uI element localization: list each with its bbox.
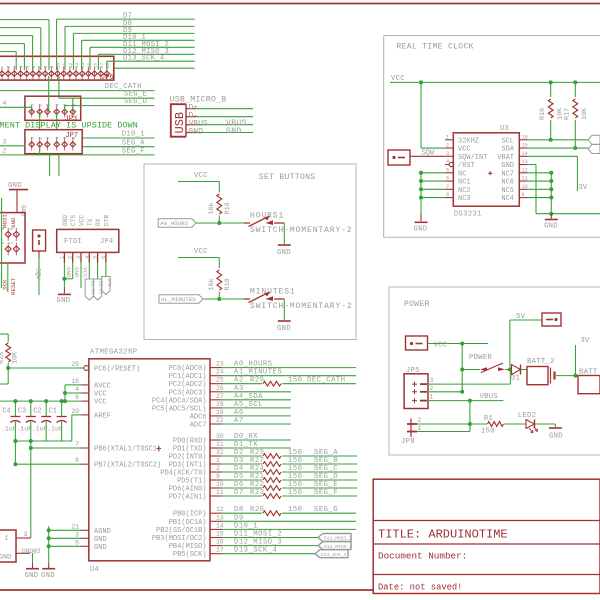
diode D1 <box>508 365 527 383</box>
svg-text:2: 2 <box>446 143 449 149</box>
U4 pin 30 PD0(RXD) net D0_RX <box>173 433 291 446</box>
svg-text:4: 4 <box>75 386 79 393</box>
U3 pin 12 NC7 <box>501 167 527 178</box>
svg-text:JP6: JP6 <box>101 74 114 82</box>
svg-text:2: 2 <box>3 147 7 154</box>
svg-text:32KHZ: 32KHZ <box>458 137 479 145</box>
svg-text:11: 11 <box>216 489 224 496</box>
svg-text:150: 150 <box>288 377 302 385</box>
svg-text:19: 19 <box>216 409 224 416</box>
supply VCC rail <box>390 75 600 84</box>
svg-text:GND: GND <box>501 162 514 170</box>
svg-text:10k: 10k <box>208 278 216 290</box>
svg-text:3: 3 <box>0 242 6 245</box>
wire net D12_MISO_3 <box>98 48 194 70</box>
svg-text:PB0(ICP): PB0(ICP) <box>173 511 207 519</box>
svg-text:ADC6: ADC6 <box>190 413 207 421</box>
resistor R19 10k <box>208 194 232 223</box>
capacitor C4 .1uF <box>1 399 21 441</box>
LED LED2 <box>518 412 556 433</box>
net DEC_CATH <box>0 83 154 91</box>
frame SET BUTTONS <box>144 164 356 340</box>
svg-text:150: 150 <box>288 449 302 457</box>
wire net D10_1 <box>82 34 195 70</box>
resistor R17 10K <box>564 82 590 148</box>
svg-text:150: 150 <box>481 428 495 436</box>
svg-text:R21: R21 <box>250 473 264 481</box>
svg-text:TITLE: ARDUINOTIME: TITLE: ARDUINOTIME <box>378 528 508 542</box>
U3 pin 15 SDA <box>501 143 527 154</box>
svg-text:SEG_F: SEG_F <box>122 148 145 156</box>
USB pin GND <box>186 127 253 137</box>
battery BATT <box>578 369 600 394</box>
flag DTR <box>102 263 111 295</box>
frame REAL TIME CLOCK <box>384 36 600 238</box>
U3 pin 14 VBAT <box>497 151 528 162</box>
svg-text:NC: NC <box>458 170 466 178</box>
svg-text:GND@2: GND@2 <box>22 548 41 555</box>
svg-text:SCL: SCL <box>501 137 514 145</box>
wire net D8 <box>65 20 195 70</box>
svg-text:13: 13 <box>74 63 80 69</box>
U3 pin 7 NC2 <box>445 184 471 195</box>
op-amp U4 ATMEGA328P <box>89 349 210 575</box>
svg-text:3: 3 <box>430 377 434 384</box>
U3 pin 13 GND <box>501 159 527 170</box>
wire VCC power <box>428 342 489 394</box>
svg-text:D13_SCK_4: D13_SCK_4 <box>123 55 165 63</box>
svg-text:TX: TX <box>87 218 94 226</box>
svg-text:D13_SCK_4: D13_SCK_4 <box>321 552 347 558</box>
svg-text:PB2(SS/OC1B): PB2(SS/OC1B) <box>156 527 206 535</box>
flag D12_MISO_3 <box>318 542 352 550</box>
svg-text:PB5(SCK): PB5(SCK) <box>173 551 207 559</box>
flag D13_SCK_4 <box>315 550 348 558</box>
svg-text:A0_HOURS: A0_HOURS <box>160 220 188 227</box>
wire JP5 pin2 <box>428 391 462 393</box>
U4 pin 10 PD6(AIN0) net D6 <box>169 481 357 494</box>
wire U3 NC pins to ground <box>419 171 445 221</box>
capacitor C1 .1uF <box>47 399 67 441</box>
svg-text:150: 150 <box>288 465 302 473</box>
svg-text:4: 4 <box>55 137 61 140</box>
svg-text:4: 4 <box>84 256 90 259</box>
net 3V power <box>576 337 590 376</box>
svg-text:2: 2 <box>38 137 44 140</box>
svg-text:3: 3 <box>75 531 79 538</box>
wire FTDI GND <box>57 263 81 306</box>
svg-text:JP8: JP8 <box>401 438 415 446</box>
svg-text:150: 150 <box>288 457 302 465</box>
svg-text:Date: not saved!: Date: not saved! <box>378 583 462 593</box>
svg-text:1: 1 <box>30 137 36 140</box>
svg-text:GND: GND <box>549 433 563 441</box>
svg-text:DEC_CATH: DEC_CATH <box>307 377 346 385</box>
net SEG_A <box>82 139 154 147</box>
svg-text:REAL TIME CLOCK: REAL TIME CLOCK <box>397 43 474 52</box>
svg-text:GND: GND <box>414 226 428 234</box>
svg-text:2: 2 <box>6 66 12 69</box>
solder jumper SQW 2 <box>33 230 46 258</box>
svg-text:POWER: POWER <box>469 354 492 362</box>
U4 pin 16 PB4(MISO) net D12_MISO_3 <box>169 539 318 552</box>
U3 pin 4 /RST <box>445 159 475 170</box>
svg-text:JP7: JP7 <box>66 132 79 140</box>
svg-text:PC2(ADC2): PC2(ADC2) <box>169 381 207 389</box>
svg-text:VBUS: VBUS <box>480 393 498 401</box>
svg-text:GND: GND <box>277 325 291 333</box>
U3 pin 16 SCL <box>501 134 527 145</box>
svg-text:9: 9 <box>522 192 525 198</box>
U4 pin 23 PC0(ADC0) net A0_HOURS <box>169 361 356 374</box>
wire net D9 <box>73 27 194 70</box>
svg-text:C4: C4 <box>2 408 10 416</box>
svg-text:3: 3 <box>76 256 82 259</box>
connector JP3 <box>25 96 81 123</box>
capacitor C3 .1uF <box>16 399 36 441</box>
solder jumper SQW <box>388 150 445 166</box>
svg-text:PB7(XTAL2/TOSC2): PB7(XTAL2/TOSC2) <box>94 462 161 470</box>
svg-text:7: 7 <box>446 184 449 190</box>
svg-text:PD0(RXD): PD0(RXD) <box>173 438 207 446</box>
U4 pin 32 PD2(INT0) net D2 <box>169 449 357 462</box>
U4 pin 3 GND <box>75 531 106 544</box>
resistor R28 10K (reset pullup) <box>0 334 20 368</box>
svg-text:SWITCH-MOMENTARY-2: SWITCH-MOMENTARY-2 <box>250 226 353 235</box>
wire XTAL1 down to battery pin 3 <box>30 448 32 538</box>
svg-text:Document Number:: Document Number: <box>378 551 467 562</box>
svg-text:PC1(ADC1): PC1(ADC1) <box>169 373 207 381</box>
title block <box>373 479 600 593</box>
net D10_1 <box>82 131 154 139</box>
svg-text:9: 9 <box>49 66 55 69</box>
U4 pin 28 PC5(ADC5/SCL) net A5_SCL <box>152 401 291 414</box>
connector JP8 <box>401 417 422 446</box>
svg-text:RX: RX <box>95 218 102 226</box>
svg-text:NC6: NC6 <box>501 179 514 187</box>
wire net D13_SCK_4 <box>107 55 195 70</box>
net SEG_E <box>59 76 154 112</box>
svg-text:D1: D1 <box>511 375 520 383</box>
U4 pin 14 PB2(SS/OC1B) net D10_1 <box>156 522 356 535</box>
wire net D11_MOSI_2 <box>90 41 195 70</box>
svg-text:13: 13 <box>216 514 224 521</box>
wire ISP left <box>1 198 3 288</box>
connector JP6 <box>0 56 114 82</box>
svg-text:NC3: NC3 <box>458 195 471 203</box>
svg-text:10: 10 <box>216 481 224 488</box>
ground RTC right <box>544 214 558 231</box>
U3 pin 1 32KHZ <box>445 134 479 145</box>
svg-text:NC1: NC1 <box>458 179 471 187</box>
resistor R18 10k <box>208 270 232 299</box>
wire AGND rail <box>47 526 81 563</box>
U3 pin 5 NC <box>445 167 466 178</box>
wire VCC to U3 pin2 <box>421 82 445 148</box>
svg-text:R26: R26 <box>250 506 264 514</box>
net 3V (VBAT) <box>528 156 588 192</box>
U4 pin 13 PB1(OC1A) net D9 <box>169 514 356 527</box>
svg-text:GND: GND <box>73 267 80 278</box>
svg-text:5: 5 <box>9 242 15 245</box>
svg-text:GND: GND <box>277 249 291 257</box>
svg-text:U4: U4 <box>90 566 99 574</box>
U4 pin 1 PD3(INT1) net D3 <box>169 457 357 470</box>
svg-text:MINUTES1: MINUTES1 <box>250 288 296 297</box>
svg-text:SEG_F: SEG_F <box>314 489 338 497</box>
svg-text:PC6(/RESET): PC6(/RESET) <box>94 366 140 374</box>
wire VCC rail to U4 <box>0 385 81 403</box>
U4 pin 22 ADC7 net A7 <box>190 417 291 430</box>
wire JP6 to JP3 pin 3 <box>48 76 50 112</box>
svg-text:GND: GND <box>25 572 39 580</box>
svg-text:3: 3 <box>3 138 7 145</box>
connector JP4 FTDI <box>57 215 119 263</box>
svg-text:10K: 10K <box>581 107 589 120</box>
svg-text:20: 20 <box>71 408 79 415</box>
supply VCC box <box>406 336 448 350</box>
svg-text:/RST: /RST <box>458 162 475 170</box>
svg-text:6: 6 <box>31 66 37 69</box>
svg-text:GND: GND <box>544 223 558 231</box>
svg-text:150: 150 <box>288 489 302 497</box>
flag D1_TX <box>85 263 94 301</box>
USB pin D- <box>186 112 253 121</box>
U4 pin 24 PC1(ADC1) net A1_MINUTES <box>169 369 356 382</box>
svg-text:R19: R19 <box>224 202 232 214</box>
svg-text:SEG_G: SEG_G <box>314 506 338 514</box>
switch MINUTES1 SWITCH-MOMENTARY-2 <box>244 288 353 312</box>
svg-text:AREF: AREF <box>94 412 111 420</box>
svg-text:16: 16 <box>522 134 528 140</box>
svg-text:10K: 10K <box>12 351 20 364</box>
svg-text:VCC: VCC <box>194 172 208 180</box>
U4 pin 27 PC4(ADC4/SDA) net A4_SDA <box>152 393 291 406</box>
svg-text:ADC7: ADC7 <box>190 422 207 430</box>
flag A4_SDA <box>588 145 600 154</box>
svg-text:GND: GND <box>65 267 72 278</box>
wire to JP3 pin 1 <box>0 100 32 112</box>
svg-text:LED2: LED2 <box>518 412 536 420</box>
U3 pin 8 NC3 <box>445 192 471 203</box>
svg-text:SWITCH-MOMENTARY-2: SWITCH-MOMENTARY-2 <box>250 302 353 311</box>
svg-text:D12_MISO_3: D12_MISO_3 <box>324 544 352 550</box>
svg-text:150: 150 <box>288 506 302 514</box>
svg-text:NC5: NC5 <box>501 187 514 195</box>
net SEG_F <box>0 147 154 155</box>
U3 pin 9 NC4 <box>501 192 527 203</box>
USB pin VBUS <box>186 119 253 129</box>
svg-text:6: 6 <box>101 256 107 259</box>
svg-text:3V: 3V <box>581 337 590 345</box>
svg-text:BATT_2: BATT_2 <box>527 358 555 366</box>
svg-text:1: 1 <box>216 457 220 464</box>
svg-text:22: 22 <box>216 417 224 424</box>
svg-text:5V: 5V <box>516 313 526 321</box>
svg-text:PD5(T1): PD5(T1) <box>177 478 206 486</box>
svg-text:PB6(XTAL1/TOSC1): PB6(XTAL1/TOSC1) <box>94 446 161 454</box>
svg-text:1: 1 <box>5 535 9 543</box>
switch POWER <box>469 354 510 373</box>
wire JP7 down <box>50 154 59 176</box>
svg-text:17: 17 <box>216 547 224 554</box>
svg-text:R22: R22 <box>250 481 264 489</box>
svg-text:AGND: AGND <box>94 528 111 536</box>
USB pin D+ <box>186 104 253 113</box>
svg-text:VCC: VCC <box>94 391 107 399</box>
svg-text:PC0(ADC0): PC0(ADC0) <box>169 365 207 373</box>
flag A5_SCL <box>588 135 600 144</box>
svg-text:FTDI: FTDI <box>64 238 82 246</box>
svg-text:3: 3 <box>24 531 28 539</box>
wire ISP down <box>7 263 9 292</box>
wire JP6 left net 1 <box>0 20 49 70</box>
svg-text:R23: R23 <box>250 489 264 497</box>
connector JP5 <box>404 367 433 409</box>
svg-text:12: 12 <box>522 167 528 173</box>
svg-text:150: 150 <box>288 473 302 481</box>
svg-text:PB1(OC1A): PB1(OC1A) <box>169 519 207 527</box>
svg-text:D11_MOSI_2: D11_MOSI_2 <box>324 536 352 542</box>
ground GND@2 <box>22 548 41 580</box>
svg-text:31: 31 <box>216 441 224 448</box>
wire reset net <box>0 366 84 384</box>
svg-text:.1uF: .1uF <box>1 426 17 433</box>
svg-text:SQW/INT: SQW/INT <box>458 154 487 162</box>
svg-text:150: 150 <box>288 481 302 489</box>
svg-text:DTR: DTR <box>103 215 110 226</box>
svg-text:7: 7 <box>37 66 43 69</box>
svg-text:8: 8 <box>43 66 49 69</box>
svg-text:PB3(MOSI/OC2): PB3(MOSI/OC2) <box>152 535 207 543</box>
wire JP8 pin2 <box>417 423 470 425</box>
U4 pin 15 PB3(MOSI/OC2) net D11_MOSI_2 <box>152 531 318 544</box>
svg-text:28: 28 <box>216 401 224 408</box>
svg-text:16: 16 <box>93 63 99 69</box>
svg-text:R29: R29 <box>250 377 264 385</box>
svg-text:PD6(AIN0): PD6(AIN0) <box>169 486 207 494</box>
svg-text:3: 3 <box>446 151 449 157</box>
wire JP6 left net 3 <box>0 36 33 70</box>
svg-text:GND: GND <box>41 572 55 580</box>
svg-text:ATMEGA328P: ATMEGA328P <box>90 349 138 357</box>
svg-text:32: 32 <box>216 449 224 456</box>
frame POWER <box>389 287 600 455</box>
supply 5V box <box>510 313 561 370</box>
svg-text:R24: R24 <box>250 465 264 473</box>
svg-text:C2: C2 <box>33 408 41 416</box>
svg-text:R27: R27 <box>250 457 264 465</box>
U4 pin 9 PD5(T1) net D5 <box>177 473 357 486</box>
net SEG_D <box>65 98 155 112</box>
svg-text:17: 17 <box>99 63 105 69</box>
svg-text:23: 23 <box>216 361 224 368</box>
svg-text:6: 6 <box>446 176 449 182</box>
svg-text:PC4(ADC4/SDA): PC4(ADC4/SDA) <box>152 397 207 405</box>
wire AL_MINUTES net <box>203 297 245 301</box>
svg-text:.1uF: .1uF <box>16 426 32 433</box>
svg-text:27: 27 <box>216 393 224 400</box>
U4 pin 20 AREF <box>71 408 110 421</box>
U4 pin 5 GND <box>75 539 106 552</box>
capacitor C2 .1uF <box>32 399 52 441</box>
svg-text:PD7(AIN1): PD7(AIN1) <box>169 494 207 502</box>
svg-text:VBAT: VBAT <box>497 154 514 162</box>
svg-text:7: 7 <box>75 441 79 448</box>
U4 pin 29 PC6(/RESET) <box>71 361 140 374</box>
U4 pin 21 AGND <box>71 523 110 536</box>
resistor R1 150 <box>470 415 526 436</box>
U4 pin 2 PD4(XCK/T0) net D4 <box>160 465 357 478</box>
svg-text:.1uF: .1uF <box>47 426 63 433</box>
flag D11_MOSI_2 <box>318 534 352 542</box>
svg-text:GND: GND <box>0 554 11 562</box>
U4 pin 4 VCC <box>75 386 106 399</box>
svg-text:1: 1 <box>446 134 449 140</box>
svg-text:3: 3 <box>45 137 51 140</box>
svg-text:11: 11 <box>522 176 528 182</box>
wire JP6 left net 2 <box>0 28 41 70</box>
svg-text:3: 3 <box>12 66 18 69</box>
wire U3 NC right rail <box>528 171 554 214</box>
svg-text:DS3231: DS3231 <box>454 211 482 219</box>
svg-text:VCC: VCC <box>434 342 448 350</box>
svg-text:R18: R18 <box>224 278 232 290</box>
svg-text:AVCC: AVCC <box>94 382 111 390</box>
wire JP6 left net 4 <box>0 44 24 70</box>
svg-text:1: 1 <box>30 104 36 107</box>
svg-text:24: 24 <box>216 369 224 376</box>
svg-text:12: 12 <box>216 506 224 513</box>
U3 pin 3 SQW/INT <box>445 151 487 162</box>
ground HOURS1 <box>277 223 291 257</box>
connector USB_MICRO_B <box>170 96 227 137</box>
wire XTAL2 <box>13 441 81 466</box>
svg-text:SEG_D: SEG_D <box>124 98 147 106</box>
wire FTDI VCC <box>81 263 89 289</box>
svg-text:5: 5 <box>25 66 31 69</box>
svg-text:9: 9 <box>216 473 220 480</box>
svg-text:1: 1 <box>59 256 65 259</box>
U4 pin 8 PB7(XTAL2/TOSC2) <box>75 457 161 470</box>
svg-text:1: 1 <box>418 425 422 432</box>
svg-text:PC5(ADC5/SCL): PC5(ADC5/SCL) <box>152 405 207 413</box>
svg-text:VCC: VCC <box>391 75 405 83</box>
svg-text:2: 2 <box>216 465 220 472</box>
U4 pin 18 AVCC <box>71 378 110 391</box>
svg-text:5: 5 <box>93 256 99 259</box>
svg-text:16: 16 <box>216 539 224 546</box>
svg-text:USB: USB <box>173 112 187 134</box>
svg-text:POWER: POWER <box>404 300 430 309</box>
ground above ISP <box>8 182 28 216</box>
svg-text:R25: R25 <box>250 449 264 457</box>
svg-text:PD3(INT1): PD3(INT1) <box>169 462 207 470</box>
svg-text:PC3(ADC3): PC3(ADC3) <box>169 389 207 397</box>
svg-text:SDA: SDA <box>501 146 514 154</box>
wire U3 GND pin13 <box>528 165 600 216</box>
svg-text:2: 2 <box>418 417 422 424</box>
svg-text:SEG_D: SEG_D <box>314 473 338 481</box>
svg-text:GND: GND <box>57 297 71 305</box>
svg-text:10k: 10k <box>208 202 216 214</box>
svg-text:4: 4 <box>19 66 25 69</box>
svg-text:4: 4 <box>3 100 7 107</box>
U3 pin 2 VCC <box>445 143 471 154</box>
ground RTC left <box>414 222 428 233</box>
svg-text:MOSI: MOSI <box>2 214 9 228</box>
svg-text:15: 15 <box>522 143 528 149</box>
